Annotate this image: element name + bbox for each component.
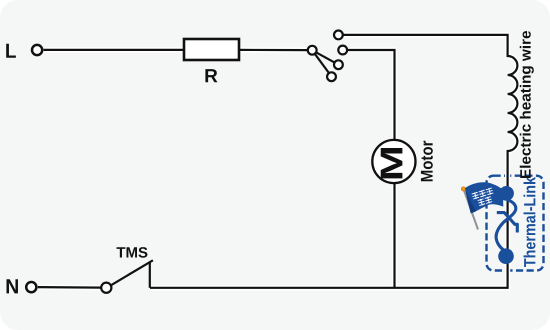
- switch S1 pole: [308, 46, 317, 55]
- wire motor contact to motor top: [347, 50, 394, 140]
- logo flag pole: [464, 190, 478, 230]
- resistor R: [184, 39, 239, 82]
- node N: [7, 279, 37, 293]
- switch S1 arm 1 end circle: [334, 60, 343, 69]
- thermal link dashed box: [487, 176, 544, 271]
- switch S1 contact to motor: [338, 46, 347, 55]
- wire L to resistor: [44, 47, 184, 52]
- motor M: [372, 140, 415, 183]
- thermal link cross stroke: [497, 213, 518, 233]
- label Thermal-Link: [524, 177, 536, 267]
- thermal link element squiggle: [496, 200, 516, 252]
- node L: [6, 44, 42, 58]
- switch S1 contact to heater: [334, 31, 343, 40]
- wire motor bottom to bottom rail: [392, 183, 397, 288]
- logo flag cloth: [465, 182, 504, 213]
- switch S1 arm 2 end circle: [327, 72, 336, 81]
- thermal link bottom dot: [498, 248, 514, 264]
- label Motor: [421, 141, 433, 182]
- switch S1 arm 2: [315, 54, 330, 74]
- switch S1 arm 1: [316, 52, 335, 62]
- wire N to TMS: [38, 285, 101, 291]
- logo flag ball: [461, 187, 465, 191]
- wire heater branch with coil to bottom rail: [150, 35, 517, 288]
- thermal link top dot: [499, 186, 514, 201]
- wire resistor to switch pole: [239, 47, 308, 52]
- label Electric heating wire: [520, 31, 534, 178]
- label TMS: [117, 247, 148, 258]
- switch TMS: [101, 260, 153, 293]
